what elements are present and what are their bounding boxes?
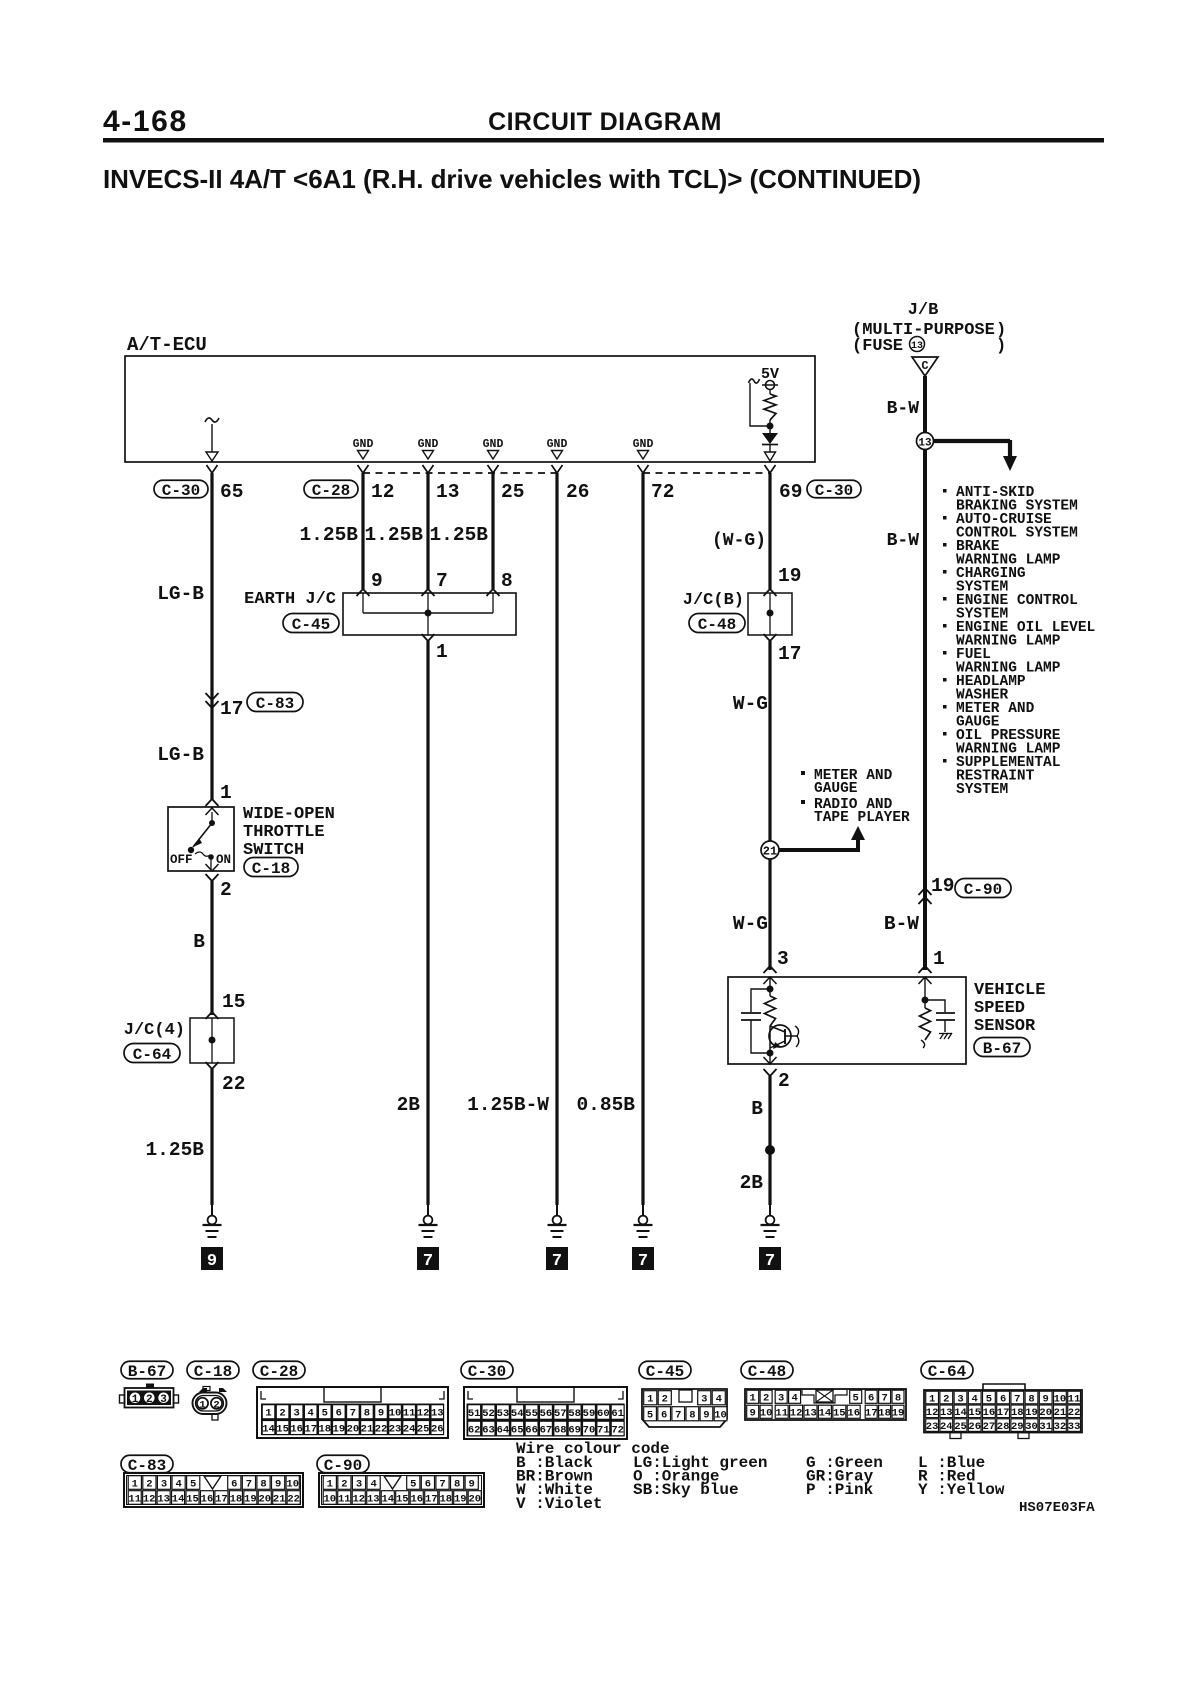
branch junction circle 21 — [761, 826, 865, 859]
svg-text:63: 63 — [482, 1424, 495, 1436]
connector C-48 pinout — [745, 1389, 906, 1420]
ECU connector pin mark at x=770 — [765, 465, 776, 473]
pin 69 — [779, 481, 802, 503]
svg-text:3: 3 — [701, 1394, 707, 1406]
wire label (W-G) — [712, 531, 766, 551]
svg-text:10: 10 — [323, 1493, 336, 1505]
pin 19 label (C-90) — [931, 875, 954, 897]
svg-text:Y :Yellow: Y :Yellow — [918, 1481, 1005, 1499]
svg-text:13: 13 — [804, 1408, 817, 1420]
svg-text:4: 4 — [716, 1394, 722, 1406]
svg-text:54: 54 — [511, 1408, 524, 1420]
svg-text:9: 9 — [750, 1408, 756, 1420]
chevrons into switch — [206, 799, 219, 815]
svg-text:56: 56 — [540, 1408, 553, 1420]
svg-text:1: 1 — [265, 1408, 271, 1420]
pin 65 — [220, 481, 243, 503]
svg-text:9: 9 — [378, 1408, 384, 1420]
VSS internal capacitor C2 — [925, 1000, 955, 1032]
svg-text:11: 11 — [775, 1408, 788, 1420]
connector label C-48 — [689, 614, 745, 634]
wire label W-G (2) — [733, 913, 768, 935]
ECU GND pin at x=557 — [547, 438, 568, 459]
svg-text:55: 55 — [525, 1408, 538, 1420]
svg-text:4: 4 — [308, 1408, 314, 1420]
svg-text:2: 2 — [341, 1478, 347, 1490]
svg-text:62: 62 — [468, 1424, 481, 1436]
svg-text:3: 3 — [160, 1394, 167, 1406]
VSS output transistor Q1 — [769, 1025, 799, 1053]
svg-text:2: 2 — [763, 1393, 769, 1405]
ECU connector pin mark at x=643 — [638, 465, 649, 473]
svg-text:66: 66 — [525, 1424, 538, 1436]
svg-text:16: 16 — [290, 1423, 303, 1435]
svg-text:3: 3 — [356, 1478, 362, 1490]
J/C(4) name — [124, 1021, 185, 1040]
svg-text:10: 10 — [389, 1408, 402, 1420]
wire pin69 middle W-G — [768, 641, 771, 970]
connector label C-28 (pin 12) — [304, 480, 358, 500]
wire label 1.25B (pin13) — [364, 524, 423, 546]
pin 13 — [436, 481, 459, 503]
ECU GND pin at x=428 — [418, 438, 439, 459]
svg-text:8: 8 — [364, 1408, 370, 1420]
svg-text:3: 3 — [293, 1408, 299, 1420]
chevron into J/C(4) — [206, 1012, 219, 1019]
wire pin12 — [361, 473, 364, 589]
svg-text:19: 19 — [892, 1408, 905, 1420]
connector label C-30 (pin 69) — [807, 480, 861, 500]
svg-text:9: 9 — [703, 1410, 709, 1422]
svg-text:18: 18 — [439, 1493, 452, 1505]
svg-text:14: 14 — [819, 1408, 832, 1420]
svg-text:2: 2 — [279, 1408, 285, 1420]
connector C-18 pinout — [193, 1387, 228, 1421]
svg-text:11: 11 — [338, 1493, 351, 1505]
ECU connector pin mark at x=493 — [488, 465, 499, 473]
svg-text:C-64: C-64 — [928, 1363, 967, 1381]
systems supplied list — [943, 485, 1095, 798]
resistor (pull-up) — [764, 390, 776, 426]
svg-text:4: 4 — [972, 1393, 978, 1405]
svg-text:64: 64 — [497, 1424, 510, 1436]
pin 1 label (earth J/C) — [436, 641, 448, 663]
svg-text:SB:Sky blue: SB:Sky blue — [633, 1481, 739, 1499]
svg-text:16: 16 — [410, 1493, 423, 1505]
chevrons into speed sensor pin 1 — [919, 966, 932, 984]
svg-text:19: 19 — [1025, 1407, 1038, 1419]
svg-text:17: 17 — [997, 1407, 1010, 1419]
ground symbol 7 (1.25B-W) — [546, 1204, 568, 1271]
svg-text:25: 25 — [417, 1423, 430, 1435]
ECU GND pin at x=493 — [483, 438, 504, 459]
wire label W-G — [733, 693, 768, 715]
svg-text:58: 58 — [568, 1408, 581, 1420]
svg-text:6: 6 — [661, 1410, 667, 1422]
connector label C-45 — [283, 614, 339, 634]
chevron into J/C(B) — [764, 589, 777, 596]
wire VSS to ground B — [768, 1076, 771, 1205]
svg-text:8: 8 — [260, 1478, 266, 1490]
svg-text:15: 15 — [186, 1493, 199, 1505]
connector label C-48 (pinout) — [741, 1361, 793, 1381]
svg-text:33: 33 — [1068, 1421, 1081, 1433]
pin 7 label — [436, 570, 448, 592]
dashed harness line pins 72-69 — [643, 472, 770, 474]
svg-text:6: 6 — [425, 1478, 431, 1490]
svg-text:C-30: C-30 — [468, 1363, 506, 1381]
svg-text:20: 20 — [258, 1493, 271, 1505]
chevron out of J/C(4) — [206, 1062, 219, 1069]
svg-text:27: 27 — [983, 1421, 996, 1433]
pin 25 — [501, 481, 524, 503]
svg-text:32: 32 — [1054, 1421, 1067, 1433]
svg-text:29: 29 — [1011, 1421, 1024, 1433]
J/C(B) name — [683, 591, 744, 610]
svg-text:5: 5 — [322, 1408, 328, 1420]
svg-text:23: 23 — [926, 1421, 939, 1433]
svg-text:2: 2 — [943, 1393, 949, 1405]
svg-text:1: 1 — [929, 1393, 935, 1405]
svg-text:21: 21 — [361, 1423, 374, 1435]
ECU internal lead to pin 65 — [205, 418, 219, 461]
svg-text:P :Pink: P :Pink — [806, 1481, 874, 1499]
svg-text:68: 68 — [554, 1424, 567, 1436]
wire label 1.25B (pin25) — [429, 524, 488, 546]
svg-text:14: 14 — [262, 1423, 275, 1435]
pin 8 label — [501, 570, 513, 592]
svg-text:4: 4 — [370, 1478, 376, 1490]
svg-text:1: 1 — [750, 1393, 756, 1405]
wire label B — [193, 931, 205, 953]
VSS left branch: node — [767, 977, 774, 996]
svg-text:10: 10 — [714, 1410, 727, 1422]
VSS bottom node — [767, 1050, 774, 1065]
svg-text:21: 21 — [273, 1493, 286, 1505]
svg-text:3: 3 — [161, 1478, 167, 1490]
VSS name — [974, 981, 1045, 1036]
svg-text:17: 17 — [215, 1493, 228, 1505]
branch junction circle 13 — [917, 433, 1018, 472]
svg-text:8: 8 — [1028, 1393, 1034, 1405]
wire colour code legend — [516, 1440, 1005, 1513]
svg-text:1: 1 — [327, 1478, 333, 1490]
wire label B-W — [887, 399, 920, 419]
wire label B-W (2) — [887, 531, 920, 551]
svg-text:22: 22 — [1068, 1407, 1081, 1419]
pin 19 label — [778, 565, 801, 587]
junction node below resistor — [767, 423, 774, 430]
svg-text:15: 15 — [968, 1407, 981, 1419]
svg-text:2: 2 — [213, 1399, 219, 1411]
connector C-28 pinout — [257, 1387, 448, 1438]
svg-text:16: 16 — [847, 1408, 860, 1420]
diode D (to pin 69) — [762, 426, 778, 461]
svg-text:12: 12 — [790, 1408, 803, 1420]
svg-text:15: 15 — [276, 1423, 289, 1435]
VSS right branch node — [922, 977, 929, 1008]
inline connector C-90 marker — [919, 888, 932, 904]
pin 2 label (switch) — [220, 879, 232, 901]
wire label B (VSS) — [751, 1098, 763, 1120]
svg-text:V :Violet: V :Violet — [516, 1495, 602, 1513]
wire pin65 mid segment B — [210, 881, 213, 1015]
svg-text:24: 24 — [940, 1421, 953, 1433]
svg-text:10: 10 — [1054, 1393, 1067, 1405]
svg-text:7: 7 — [439, 1478, 445, 1490]
pin 15 label — [222, 991, 245, 1013]
wire label 1.25B — [145, 1139, 204, 1161]
svg-text:7: 7 — [675, 1410, 681, 1422]
svg-text:14: 14 — [954, 1407, 967, 1419]
joint connector J/C(4) box — [190, 1018, 234, 1063]
wire pin25 — [491, 473, 494, 589]
connector label C-90 — [955, 879, 1011, 899]
svg-text:18: 18 — [318, 1423, 331, 1435]
svg-text:1: 1 — [132, 1394, 139, 1406]
svg-text:13: 13 — [367, 1493, 380, 1505]
svg-text:5: 5 — [986, 1393, 992, 1405]
svg-text:2: 2 — [146, 1478, 152, 1490]
wire pin72 0.85B — [641, 473, 644, 1205]
connector label C-18 — [244, 858, 298, 878]
svg-text:13: 13 — [157, 1493, 170, 1505]
svg-text:53: 53 — [497, 1408, 510, 1420]
svg-text:25: 25 — [954, 1421, 967, 1433]
joint connector J/C(B) box C-48 — [748, 593, 792, 635]
svg-text:18: 18 — [230, 1493, 243, 1505]
ground symbol 7 (2B) — [417, 1204, 439, 1271]
wide-open throttle switch box — [168, 807, 234, 871]
wire pin65 lower segment 1.25B — [210, 1069, 213, 1205]
wire label 1.25B-W — [467, 1094, 549, 1116]
svg-text:26: 26 — [431, 1423, 444, 1435]
wire label 1.25B (pin12) — [299, 524, 358, 546]
connector label C-28 (pinout) — [253, 1361, 305, 1381]
svg-text:57: 57 — [554, 1408, 567, 1420]
pin 26 — [566, 481, 589, 503]
svg-text:3: 3 — [778, 1393, 784, 1405]
svg-text:C-45: C-45 — [646, 1363, 684, 1381]
earth J/C name — [244, 590, 336, 609]
svg-text:B-67: B-67 — [128, 1363, 166, 1381]
ECU connector pin mark at x=212 — [207, 465, 218, 473]
internal branch wire with continuation squiggle — [749, 379, 771, 426]
svg-text:18: 18 — [878, 1408, 891, 1420]
chevron out pin 1 — [422, 634, 435, 641]
svg-text:14: 14 — [381, 1493, 394, 1505]
svg-text:4: 4 — [791, 1393, 797, 1405]
svg-text:20: 20 — [468, 1493, 481, 1505]
svg-text:C-18: C-18 — [194, 1363, 232, 1381]
connector label B-67 (pinout) — [121, 1361, 173, 1381]
svg-text:18: 18 — [1011, 1407, 1024, 1419]
svg-text:7: 7 — [350, 1408, 356, 1420]
svg-text:13: 13 — [940, 1407, 953, 1419]
svg-text:22: 22 — [375, 1423, 388, 1435]
ECU GND pin at x=643 — [633, 438, 654, 459]
connector C-30 pinout — [464, 1387, 627, 1439]
earth J/C internal bus — [363, 593, 493, 635]
connector B-67 pinout — [120, 1384, 179, 1408]
VSS resistor R1 — [765, 996, 776, 1026]
ECU GND pin at x=363 — [353, 438, 374, 459]
splice node — [765, 1145, 775, 1155]
svg-text:31: 31 — [1039, 1421, 1052, 1433]
wire label 2B (VSS) — [740, 1172, 764, 1194]
svg-text:6: 6 — [1000, 1393, 1006, 1405]
pin 22 label — [222, 1073, 245, 1095]
earth J/C box C-45 — [343, 593, 516, 635]
fuse number circle 13 — [910, 337, 925, 353]
svg-text:6: 6 — [868, 1393, 874, 1405]
svg-text:24: 24 — [403, 1423, 416, 1435]
svg-text:17: 17 — [304, 1423, 317, 1435]
A/T-ECU block — [125, 334, 815, 462]
connector label C-83 — [247, 693, 303, 713]
B-W bus upper — [923, 376, 927, 434]
connector label C-45 (pinout) — [639, 1361, 691, 1381]
svg-text:19: 19 — [333, 1423, 346, 1435]
VSS capacitor C1 — [741, 989, 770, 1053]
ECU connector pin mark at x=363 — [358, 465, 369, 473]
svg-text:C-48: C-48 — [748, 1363, 786, 1381]
svg-text:59: 59 — [583, 1408, 596, 1420]
ground symbol 7 (0.85B) — [632, 1204, 654, 1271]
wire label LG-B (2) — [157, 744, 204, 766]
svg-text:7: 7 — [1014, 1393, 1020, 1405]
pin 72 — [651, 481, 674, 503]
svg-text:1: 1 — [647, 1394, 653, 1406]
svg-text:11: 11 — [128, 1493, 141, 1505]
page number header — [103, 105, 188, 138]
connector C-90 pinout — [319, 1473, 484, 1507]
svg-text:61: 61 — [611, 1408, 624, 1420]
svg-text:69: 69 — [568, 1424, 581, 1436]
svg-text:21: 21 — [1054, 1407, 1067, 1419]
pin 3 label — [777, 948, 789, 970]
svg-text:22: 22 — [287, 1493, 300, 1505]
wire pin13 — [426, 473, 429, 589]
svg-text:9: 9 — [1043, 1393, 1049, 1405]
svg-text:HS07E03FA: HS07E03FA — [1019, 1500, 1095, 1516]
svg-text:20: 20 — [347, 1423, 360, 1435]
branch list: meter and gauge / radio — [801, 768, 910, 826]
svg-text:6: 6 — [231, 1478, 237, 1490]
svg-text:9: 9 — [275, 1478, 281, 1490]
pin 12 — [371, 481, 394, 503]
svg-text:67: 67 — [540, 1424, 553, 1436]
svg-text:2: 2 — [662, 1394, 668, 1406]
svg-text:9: 9 — [469, 1478, 475, 1490]
svg-text:52: 52 — [482, 1408, 495, 1420]
svg-text:3: 3 — [957, 1393, 963, 1405]
figure code — [1019, 1500, 1095, 1516]
svg-text:13: 13 — [431, 1408, 444, 1420]
OFF label — [170, 853, 193, 867]
connector label C-30 (pin 65) — [154, 480, 208, 500]
connector label B-67 — [974, 1038, 1030, 1058]
svg-text:5: 5 — [190, 1478, 196, 1490]
svg-text:19: 19 — [244, 1493, 257, 1505]
pin 9 label — [371, 570, 383, 592]
page title CIRCUIT DIAGRAM — [488, 108, 722, 136]
connector label C-64 — [124, 1044, 180, 1064]
svg-text:11: 11 — [403, 1408, 416, 1420]
5V source circle — [762, 381, 778, 390]
svg-text:51: 51 — [468, 1408, 481, 1420]
pin 1 label (speed sensor) — [933, 948, 945, 970]
header rule — [103, 138, 1104, 143]
svg-text:8: 8 — [454, 1478, 460, 1490]
wire label 0.85B — [576, 1094, 635, 1116]
wire label B-W (3) — [884, 913, 919, 935]
connector C-83 pinout — [124, 1473, 303, 1507]
connector label C-30 (pinout) — [461, 1361, 513, 1381]
svg-text:60: 60 — [597, 1408, 610, 1420]
svg-text:11: 11 — [1068, 1393, 1081, 1405]
wire label 2B — [397, 1094, 421, 1116]
svg-text:70: 70 — [583, 1424, 596, 1436]
svg-text:7: 7 — [246, 1478, 252, 1490]
connector label C-90 (pinout) — [317, 1455, 369, 1475]
junction block triangle C — [912, 357, 938, 376]
pin 17 label (J/C B) — [778, 643, 801, 665]
svg-text:12: 12 — [417, 1408, 430, 1420]
svg-text:30: 30 — [1025, 1421, 1038, 1433]
ground symbol 7 (VSS) — [759, 1204, 781, 1271]
svg-text:28: 28 — [997, 1421, 1010, 1433]
switch component name — [243, 805, 335, 860]
svg-text:C-28: C-28 — [260, 1363, 298, 1381]
VSS internal chassis mark — [939, 1033, 952, 1039]
ECU connector pin mark at x=428 — [423, 465, 434, 473]
svg-text:12: 12 — [143, 1493, 156, 1505]
svg-text:17: 17 — [865, 1408, 878, 1420]
pin 2 label (VSS) — [778, 1070, 790, 1092]
svg-text:14: 14 — [172, 1493, 185, 1505]
pin 1 label (switch) — [220, 782, 232, 804]
connector C-64 pinout — [924, 1384, 1082, 1439]
connector label C-83 (pinout) — [121, 1455, 173, 1475]
svg-text:10: 10 — [286, 1478, 299, 1490]
svg-text:15: 15 — [833, 1408, 846, 1420]
connector label C-64 (pinout) — [921, 1361, 973, 1381]
svg-text:6: 6 — [336, 1408, 342, 1420]
chevrons out of speed sensor pin 2 — [764, 1057, 777, 1076]
svg-text:12: 12 — [352, 1493, 365, 1505]
chevrons into speed sensor pin 3 — [764, 966, 777, 984]
svg-text:1: 1 — [199, 1399, 205, 1411]
ground symbol 9 — [201, 1204, 223, 1271]
inline connector C-83 marker — [206, 693, 219, 708]
svg-text:16: 16 — [983, 1407, 996, 1419]
vehicle speed sensor box — [728, 977, 966, 1064]
chevron out of J/C(B) — [764, 634, 777, 641]
dashed harness line pins 12-26 — [363, 472, 557, 474]
svg-text:17: 17 — [425, 1493, 438, 1505]
svg-text:5: 5 — [410, 1478, 416, 1490]
connector C-45 pinout — [642, 1389, 727, 1427]
chevrons out of switch — [206, 864, 219, 881]
svg-text:65: 65 — [511, 1424, 524, 1436]
svg-text:10: 10 — [760, 1408, 773, 1420]
wire label LG-B — [157, 583, 204, 605]
svg-text:23: 23 — [389, 1423, 402, 1435]
svg-text:26: 26 — [968, 1421, 981, 1433]
svg-text:1: 1 — [132, 1478, 138, 1490]
svg-text:4: 4 — [175, 1478, 181, 1490]
